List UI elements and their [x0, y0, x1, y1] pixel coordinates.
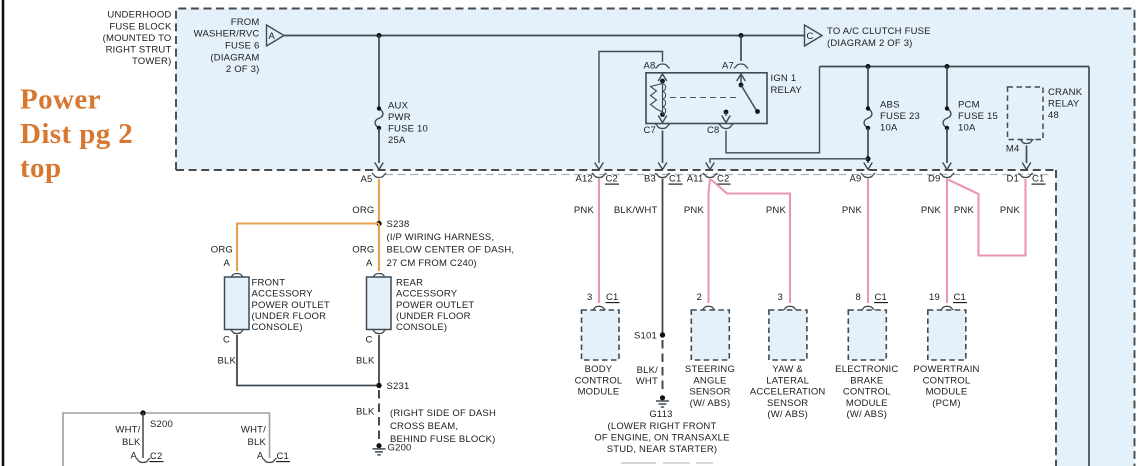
svg-text:C8: C8: [707, 125, 720, 136]
pin M4: [1006, 139, 1034, 154]
svg-text:C1: C1: [277, 451, 290, 462]
wire PNK D9 to PCM: [946, 179, 948, 304]
wire C8 to relay output bus: [726, 67, 820, 153]
svg-text:C1: C1: [875, 292, 888, 303]
svg-text:(MOUNTED TO: (MOUNTED TO: [103, 33, 172, 44]
svg-text:10A: 10A: [958, 123, 976, 134]
electronic brake control module label: [835, 364, 898, 420]
svg-text:PNK: PNK: [954, 205, 975, 216]
label WHT/BLK right: [241, 424, 267, 448]
secondary boundary dashed line: [385, 174, 1052, 176]
pin C front outlet: [223, 329, 244, 345]
svg-text:STUD, NEAR STARTER): STUD, NEAR STARTER): [607, 444, 718, 455]
svg-text:A: A: [257, 451, 264, 462]
svg-text:C2: C2: [150, 451, 163, 462]
svg-text:Power: Power: [20, 83, 101, 115]
connector A9: [849, 173, 875, 184]
pin A rear outlet: [366, 258, 386, 278]
wire ORG branch to front outlet: [237, 224, 379, 272]
svg-text:ORG: ORG: [211, 245, 233, 256]
powertrain control module box: [928, 310, 966, 360]
svg-text:PNK: PNK: [574, 205, 595, 216]
svg-text:M4: M4: [1006, 143, 1020, 154]
svg-text:FUSE 10: FUSE 10: [388, 124, 428, 135]
svg-text:2: 2: [697, 292, 702, 303]
svg-text:C1: C1: [669, 174, 682, 185]
wire A8 feed from relay to A12: [599, 52, 663, 164]
svg-text:C: C: [365, 334, 372, 345]
svg-text:CONTROL: CONTROL: [923, 375, 971, 386]
svg-text:BODY: BODY: [585, 364, 613, 375]
svg-text:POWERTRAIN: POWERTRAIN: [913, 364, 979, 375]
wire right feed down page: [1088, 67, 1090, 466]
wire AUX fuse drop: [378, 36, 380, 109]
node junction at IGN relay A7: [739, 33, 744, 38]
svg-text:BLK/: BLK/: [637, 365, 659, 376]
wire BLK front outlet to S231: [237, 335, 379, 386]
svg-text:8: 8: [856, 292, 861, 303]
G113 location note: [594, 421, 729, 455]
svg-text:BRAKE: BRAKE: [850, 375, 883, 386]
svg-text:(UNDER FLOOR: (UNDER FLOOR: [396, 311, 471, 322]
svg-text:ACCESSORY: ACCESSORY: [252, 289, 314, 300]
svg-text:B3: B3: [644, 174, 656, 185]
svg-text:BLK: BLK: [356, 406, 375, 417]
svg-text:(LOWER RIGHT FRONT: (LOWER RIGHT FRONT: [608, 421, 717, 432]
connector D1 C1: [1006, 173, 1045, 184]
steering angle sensor label: [685, 364, 735, 409]
svg-text:REAR: REAR: [396, 277, 423, 288]
svg-text:C2: C2: [606, 174, 619, 185]
svg-text:S238: S238: [387, 219, 410, 230]
ign 1 relay label: [771, 73, 803, 96]
wire BLK hidden to G200: [378, 390, 380, 441]
node junction at AUX fuse: [377, 33, 382, 38]
wire fuse to A5: [375, 128, 384, 170]
svg-text:A: A: [223, 258, 230, 269]
pin 19 C1 PCM: [929, 292, 967, 311]
wire branch to A11: [706, 159, 868, 170]
svg-text:A: A: [130, 451, 137, 462]
node junction ABS fuse: [866, 64, 871, 69]
wire ABS fuse to A9: [864, 128, 873, 170]
arrow into A12: [595, 163, 604, 170]
wire to PCM fuse: [946, 67, 948, 109]
svg-text:C1: C1: [606, 292, 619, 303]
svg-text:(W/ ABS): (W/ ABS): [767, 409, 808, 420]
svg-text:STEERING: STEERING: [685, 364, 735, 375]
steering angle sensor box: [691, 310, 729, 360]
svg-text:POWER OUTLET: POWER OUTLET: [396, 300, 474, 311]
ign 1 relay box: [646, 73, 767, 124]
off-page connector A from washer/rvc: [267, 25, 285, 46]
svg-text:A11: A11: [687, 174, 704, 185]
svg-text:SENSOR: SENSOR: [767, 398, 808, 409]
svg-text:PCM: PCM: [958, 99, 980, 110]
splice S101: [634, 330, 665, 341]
svg-text:BLK: BLK: [356, 355, 375, 366]
svg-text:(W/ ABS): (W/ ABS): [690, 398, 731, 409]
svg-text:RELAY: RELAY: [1048, 98, 1080, 109]
svg-text:BLK: BLK: [217, 355, 236, 366]
svg-text:2 OF 3): 2 OF 3): [226, 64, 260, 75]
wire A7 from bus: [740, 36, 742, 62]
svg-text:LATERAL: LATERAL: [766, 375, 809, 386]
pin A front outlet: [223, 258, 244, 278]
body control module label: [575, 364, 623, 397]
fuse ABS FUSE 23 10A: [864, 99, 920, 133]
svg-text:IGN 1: IGN 1: [771, 73, 797, 84]
pin A C2 left: [130, 451, 163, 463]
wire M4 to D1: [1022, 146, 1031, 170]
svg-text:PWR: PWR: [388, 112, 411, 123]
svg-text:D9: D9: [928, 174, 941, 185]
wire PCM fuse to D9: [943, 128, 952, 170]
svg-text:FUSE 15: FUSE 15: [958, 111, 998, 122]
svg-text:FUSE 6: FUSE 6: [225, 41, 259, 52]
front outlet label: [252, 277, 330, 333]
wire to ABS fuse: [867, 67, 869, 109]
svg-text:27 CM FROM C240): 27 CM FROM C240): [387, 258, 477, 269]
wire main feed bus: [284, 35, 805, 37]
svg-text:UNDERHOOD: UNDERHOOD: [107, 10, 171, 21]
svg-text:ORG: ORG: [352, 205, 374, 216]
svg-text:MODULE: MODULE: [846, 398, 888, 409]
svg-text:BELOW CENTER OF DASH,: BELOW CENTER OF DASH,: [387, 245, 515, 256]
wire C7 to B3: [658, 131, 667, 170]
svg-text:ACCELERATION: ACCELERATION: [750, 387, 826, 398]
powertrain control module label: [913, 364, 979, 409]
svg-text:FRONT: FRONT: [252, 277, 286, 288]
relay switch: [739, 74, 760, 114]
svg-text:top: top: [20, 152, 62, 184]
relay mechanical link dashed: [670, 97, 737, 99]
crank relay label: [1048, 87, 1083, 121]
wire ORG from A5 to S238: [378, 179, 380, 224]
svg-text:ORG: ORG: [352, 245, 374, 256]
svg-text:PNK: PNK: [842, 205, 863, 216]
svg-text:WASHER/RVC: WASHER/RVC: [194, 29, 260, 40]
wire WHT gray harness box: [63, 413, 270, 466]
rear accessory power outlet: [367, 277, 392, 330]
connector A5: [360, 173, 386, 185]
svg-text:S101: S101: [634, 330, 657, 341]
svg-text:AUX: AUX: [388, 100, 409, 111]
left page border: [2, 0, 5, 466]
svg-text:CRANK: CRANK: [1048, 87, 1083, 98]
label BLK/WHT below S101: [636, 365, 658, 387]
svg-text:C2: C2: [717, 174, 730, 185]
relay coil: [651, 79, 666, 117]
yaw sensor label: [750, 364, 826, 420]
pin 8 C1 EBCM: [856, 292, 888, 311]
splice S231: [376, 381, 409, 392]
svg-text:C: C: [807, 31, 814, 42]
pin 3 yaw sensor: [778, 292, 798, 311]
node junction below ABS fuse: [866, 156, 871, 161]
svg-text:FROM: FROM: [231, 17, 260, 28]
svg-text:C1: C1: [1032, 174, 1045, 185]
svg-text:CONSOLE): CONSOLE): [252, 322, 303, 333]
svg-text:BEHIND FUSE BLOCK): BEHIND FUSE BLOCK): [390, 434, 495, 445]
svg-text:S200: S200: [150, 419, 173, 430]
fuse PCM FUSE 15 10A: [943, 99, 998, 133]
off-page connector C to A/C clutch fuse: [805, 25, 823, 46]
yaw sensor box: [769, 310, 807, 360]
svg-text:(DIAGRAM: (DIAGRAM: [210, 52, 259, 63]
crank relay 48 box: [1008, 87, 1044, 140]
svg-text:ELECTRONIC: ELECTRONIC: [835, 364, 898, 375]
front accessory power outlet: [225, 277, 250, 330]
svg-text:19: 19: [929, 292, 940, 303]
body control module box: [582, 310, 620, 360]
svg-text:SENSOR: SENSOR: [689, 387, 730, 398]
pin 2 steering angle sensor: [697, 292, 716, 311]
ground G113: [649, 395, 672, 420]
wire PNK A9 to EBCM: [867, 179, 869, 304]
relay output bus: [820, 66, 1090, 68]
svg-text:ANGLE: ANGLE: [693, 375, 726, 386]
svg-text:25A: 25A: [388, 135, 406, 146]
splice S200: [140, 410, 173, 430]
svg-text:A7: A7: [722, 60, 734, 71]
rear outlet label: [396, 277, 474, 333]
connector A12 C2: [575, 173, 619, 184]
ground G200: [373, 442, 412, 455]
wire ORG to rear outlet: [378, 224, 380, 272]
svg-text:FUSE 23: FUSE 23: [880, 111, 920, 122]
G200 location note: [390, 408, 496, 445]
svg-text:A8: A8: [643, 60, 655, 71]
svg-text:D1: D1: [1006, 174, 1019, 185]
splice S238: [376, 219, 409, 230]
svg-text:(UNDER FLOOR: (UNDER FLOOR: [252, 311, 327, 322]
svg-text:PNK: PNK: [766, 205, 787, 216]
node junction PCM fuse: [945, 64, 950, 69]
svg-text:YAW &: YAW &: [772, 364, 803, 375]
svg-text:BLK: BLK: [122, 437, 141, 448]
pin C8: [707, 110, 733, 136]
connector B3 C1: [644, 173, 683, 184]
svg-text:OF ENGINE, ON TRANSAXLE: OF ENGINE, ON TRANSAXLE: [594, 432, 729, 443]
svg-text:CROSS BEAM,: CROSS BEAM,: [390, 421, 458, 432]
svg-text:BLK: BLK: [247, 437, 266, 448]
wire PNK D9 to D1 loop: [948, 179, 1026, 256]
svg-text:C: C: [223, 334, 230, 345]
underhood fuse block label: [103, 10, 172, 67]
title Power Dist pg 2 top: [20, 83, 133, 184]
pin A8: [643, 60, 669, 81]
svg-text:RIGHT STRUT: RIGHT STRUT: [106, 45, 172, 56]
svg-text:G113: G113: [649, 409, 672, 420]
svg-text:PNK: PNK: [1000, 205, 1021, 216]
svg-text:PNK: PNK: [684, 205, 705, 216]
svg-text:A5: A5: [360, 174, 372, 185]
connector A11 C2: [687, 173, 731, 184]
svg-text:(RIGHT SIDE OF DASH: (RIGHT SIDE OF DASH: [390, 408, 496, 419]
S238 location note: [387, 232, 515, 269]
svg-text:48: 48: [1048, 110, 1059, 121]
faint cropped text at page bottom: [621, 462, 656, 464]
svg-text:WHT/: WHT/: [115, 424, 140, 435]
pin A C1 right: [257, 451, 290, 463]
from washer/rvc fuse 6 label: [194, 17, 260, 75]
wire PNK branch to yaw sensor: [711, 180, 790, 304]
svg-text:WHT/: WHT/: [241, 424, 266, 435]
connector D9: [928, 173, 954, 184]
svg-text:CONTROL: CONTROL: [843, 387, 891, 398]
svg-text:C7: C7: [643, 125, 656, 136]
svg-text:3: 3: [778, 292, 783, 303]
svg-text:A12: A12: [575, 174, 593, 185]
svg-text:(I/P WIRING HARNESS,: (I/P WIRING HARNESS,: [387, 232, 495, 243]
wire PNK A11 to steering sensor: [709, 179, 711, 304]
svg-text:PNK: PNK: [921, 205, 942, 216]
electronic brake control module box: [848, 310, 886, 360]
wire BLK/WHT hidden to G113: [662, 340, 664, 393]
svg-text:CONTROL: CONTROL: [575, 375, 623, 386]
wire BLK rear outlet to S231: [378, 335, 380, 386]
svg-text:ABS: ABS: [880, 99, 900, 110]
svg-text:FUSE BLOCK: FUSE BLOCK: [109, 21, 172, 32]
pin C7: [643, 116, 669, 136]
svg-text:(W/ ABS): (W/ ABS): [846, 409, 887, 420]
wire PNK A12 to BCM: [598, 179, 600, 304]
svg-text:Dist pg 2: Dist pg 2: [20, 118, 133, 150]
wire BLK/WHT B3 to S101: [662, 179, 664, 336]
svg-text:ACCESSORY: ACCESSORY: [396, 289, 458, 300]
svg-text:C1: C1: [954, 292, 967, 303]
to A/C clutch fuse label: [827, 26, 931, 49]
svg-text:A9: A9: [849, 174, 861, 185]
svg-text:WHT: WHT: [636, 376, 658, 387]
label WHT/BLK left: [115, 424, 141, 448]
svg-text:(PCM): (PCM): [932, 398, 960, 409]
fuse AUX PWR FUSE 10 25A: [375, 100, 428, 146]
svg-text:BLK/WHT: BLK/WHT: [614, 205, 658, 216]
svg-text:10A: 10A: [880, 123, 898, 134]
svg-text:S231: S231: [387, 381, 410, 392]
svg-text:RELAY: RELAY: [771, 85, 803, 96]
fuse block bottom dashed border: [176, 170, 1056, 466]
wire S200 drop: [142, 413, 144, 458]
svg-text:CONSOLE): CONSOLE): [396, 322, 447, 333]
svg-text:A: A: [366, 258, 373, 269]
pin C rear outlet: [365, 329, 386, 345]
pin A7: [722, 60, 748, 81]
svg-text:3: 3: [587, 292, 592, 303]
svg-text:MODULE: MODULE: [578, 387, 620, 398]
svg-text:MODULE: MODULE: [926, 387, 968, 398]
svg-text:(DIAGRAM 2 OF 3): (DIAGRAM 2 OF 3): [827, 38, 913, 49]
svg-text:A: A: [269, 31, 276, 42]
svg-text:TOWER): TOWER): [132, 56, 172, 67]
pin 3 C1 body control module: [587, 292, 619, 311]
svg-text:TO A/C CLUTCH FUSE: TO A/C CLUTCH FUSE: [827, 26, 931, 37]
svg-text:POWER OUTLET: POWER OUTLET: [252, 300, 330, 311]
